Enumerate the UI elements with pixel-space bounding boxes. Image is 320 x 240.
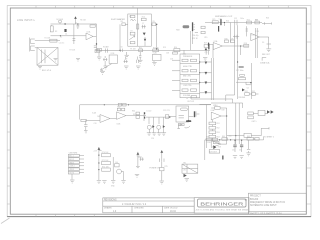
svg-text:C15: C15 [204,37,207,39]
svg-text:R50: R50 [215,105,218,107]
svg-text:FREQUENCY DRIVE 19 INCH V2: FREQUENCY DRIVE 19 INCH V2 [250,202,286,204]
svg-text:BX1200: BX1200 [250,199,259,201]
svg-text:R51: R51 [217,123,220,125]
svg-text:C17 100n: C17 100n [236,70,243,72]
svg-text:R52: R52 [217,128,220,130]
svg-text:IN R 2: IN R 2 [69,159,74,161]
svg-text:R44: R44 [132,111,135,113]
svg-text:TR1: TR1 [183,163,186,165]
svg-text:C24: C24 [151,138,154,140]
svg-text:PROJECT: PROJECT [250,195,261,197]
svg-text:C14 47p: C14 47p [192,35,198,37]
svg-text:POWER ON: POWER ON [149,167,160,169]
svg-text:R63: R63 [253,139,256,141]
svg-text:EMPHASIS LOOP: EMPHASIS LOOP [215,15,233,18]
svg-text:OUT 6: OUT 6 [69,173,74,175]
svg-text:R5 4K7: R5 4K7 [103,47,109,49]
svg-text:R7 22K: R7 22K [70,50,77,52]
svg-text:C1: C1 [75,22,77,24]
svg-text:R62: R62 [247,136,250,138]
svg-text:R61: R61 [222,136,225,138]
svg-text:BX-1 V1.0: BX-1 V1.0 [42,70,52,72]
svg-text:VOLUME: VOLUME [183,95,191,97]
svg-text:R25: R25 [266,18,269,20]
svg-text:P1 10K: P1 10K [130,48,136,50]
svg-text:BEHRINGER: BEHRINGER [200,201,244,207]
svg-text:REF OUT: REF OUT [262,54,271,56]
svg-text:19.04: 19.04 [170,211,176,213]
svg-text:DRAWN: DRAWN [104,206,112,209]
svg-text:+15V 4: +15V 4 [69,166,74,168]
svg-text:R71 10K: R71 10K [102,160,109,162]
svg-text:2 / 19-04-02 / S.M. / 1.2: 2 / 19-04-02 / S.M. / 1.2 [122,204,147,206]
svg-text:C12: C12 [234,18,237,20]
svg-text:REVISIONS: REVISIONS [104,199,117,201]
svg-text:R2: R2 [60,37,62,39]
svg-text:R18: R18 [176,29,179,31]
svg-text:R31: R31 [245,91,248,93]
svg-text:R23: R23 [255,19,258,21]
svg-text:C2 47u: C2 47u [59,43,65,45]
svg-text:R32: R32 [252,91,255,93]
svg-text:C22 C23: C22 C23 [163,110,170,112]
svg-text:R19 1K: R19 1K [192,38,199,40]
svg-text:100n: 100n [240,18,244,20]
svg-text:SHEET 1 OF 5 SHEETS 19.04: SHEET 1 OF 5 SHEETS 19.04 [250,213,282,215]
svg-text:R42: R42 [117,107,120,109]
svg-text:DATE 19.04.02: DATE 19.04.02 [164,206,178,209]
svg-text:R28: R28 [244,43,247,45]
svg-text:R45: R45 [133,114,136,116]
svg-text:R13: R13 [163,47,166,49]
svg-text:R4 100K: R4 100K [56,19,63,21]
svg-text:R10: R10 [142,17,145,19]
svg-text:C40: C40 [115,162,118,164]
svg-text:2180A VCA: 2180A VCA [260,62,270,65]
svg-text:C11: C11 [205,52,208,54]
svg-text:R75: R75 [165,166,168,168]
svg-text:CHECKED: CHECKED [134,207,144,209]
svg-text:D1 D2: D1 D2 [147,111,152,113]
svg-text:R21: R21 [212,19,215,21]
svg-text:OUT L: OUT L [252,121,257,123]
svg-text:JUST LISTEN AND YOU WILL SEE W: JUST LISTEN AND YOU WILL SEE WHAT WE MEA… [195,208,248,211]
svg-text:R53: R53 [217,132,220,134]
svg-text:R72 10K: R72 10K [102,166,109,168]
svg-text:R3: R3 [55,31,57,33]
svg-text:C32: C32 [239,150,242,152]
svg-text:LOW CTRL: LOW CTRL [183,85,192,87]
svg-text:C4: C4 [65,34,67,36]
svg-text:R58: R58 [218,147,221,149]
svg-text:C10: C10 [219,19,222,21]
svg-text:R9: R9 [153,21,155,23]
svg-text:PRESENCE: PRESENCE [183,56,193,58]
svg-text:R26: R26 [225,38,228,40]
svg-text:R8: R8 [121,21,123,23]
svg-text:R40: R40 [97,116,100,118]
svg-text:IN L 1: IN L 1 [69,156,73,158]
svg-text:C7: C7 [142,23,144,25]
svg-text:R27: R27 [204,43,207,45]
svg-text:R6 10K: R6 10K [80,19,87,21]
svg-text:D5: D5 [262,42,264,44]
svg-text:TO SHEET 2: TO SHEET 2 [264,136,274,138]
svg-text:R60: R60 [206,137,209,139]
svg-text:MID CTRL: MID CTRL [183,76,191,78]
svg-text:R49: R49 [222,110,225,112]
svg-text:OUT L/R: OUT L/R [187,101,194,103]
svg-text:C6: C6 [129,16,131,18]
svg-text:FLAT SHAPER: FLAT SHAPER [111,18,126,21]
svg-text:Q2: Q2 [247,88,249,90]
svg-text:-15V 5: -15V 5 [69,169,74,171]
svg-text:CN3 HDR6: CN3 HDR6 [69,153,78,155]
svg-text:R12 1K: R12 1K [153,47,160,49]
svg-text:R24: R24 [226,20,229,22]
svg-text:R54: R54 [217,136,220,138]
svg-text:C20: C20 [94,123,97,125]
svg-text:C41: C41 [137,156,140,158]
svg-text:R1 10K: R1 10K [45,38,52,40]
svg-text:P6: P6 [186,98,188,100]
svg-text:SCHEMATIC LINE INPUT: SCHEMATIC LINE INPUT [250,204,277,207]
svg-text:R70 10K: R70 10K [102,152,109,154]
svg-text:R22: R22 [247,19,250,21]
svg-text:C31: C31 [232,150,235,152]
svg-text:LS1: LS1 [183,170,186,172]
svg-text:R33 30K: R33 30K [239,97,246,99]
svg-text:LINE INPUT-L: LINE INPUT-L [17,19,36,22]
svg-text:HIGH CTRL: HIGH CTRL [183,66,192,68]
svg-text:R14: R14 [174,47,177,49]
svg-text:R11: R11 [139,47,142,49]
svg-text:C30: C30 [229,136,232,138]
svg-text:XLR OUT: XLR OUT [209,152,218,154]
svg-text:GND 3: GND 3 [69,162,74,164]
svg-text:P2: P2 [131,31,133,33]
